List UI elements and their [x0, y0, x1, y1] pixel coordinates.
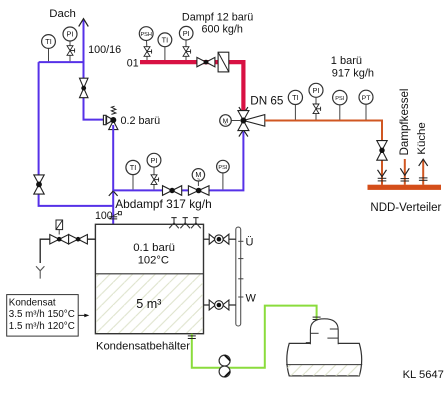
- flange ticks tank drain: [188, 336, 196, 339]
- flange ticks Kueche: [419, 178, 428, 180]
- svg-text:Kondensatbehälter: Kondensatbehälter: [96, 340, 190, 352]
- tank vents: [169, 218, 201, 229]
- svg-text:PSI: PSI: [218, 165, 227, 171]
- level gauge standpipe: [236, 227, 244, 326]
- svg-text:Dach: Dach: [49, 8, 76, 20]
- instrument TI roof: [42, 35, 56, 62]
- svg-text:PI: PI: [183, 29, 190, 38]
- flange ticks Dampfkessel: [401, 179, 410, 181]
- instrument PT NDD: [359, 90, 373, 119]
- svg-text:Küche: Küche: [416, 122, 428, 154]
- flange ticks NDD riser: [378, 178, 387, 181]
- wire: green condensate pump circuit: [192, 306, 317, 368]
- svg-text:TI: TI: [162, 35, 169, 44]
- wire: blue vent line to roof: [84, 20, 105, 120]
- drain valve W: [204, 300, 236, 310]
- instrument PI NDD with isolation valve: [309, 83, 323, 119]
- hand valve on Abdampf header: [163, 186, 182, 196]
- svg-text:DN 65: DN 65: [250, 95, 284, 108]
- wire: Dampfkessel feed: [404, 159, 406, 185]
- flow arrow up on Abdampf riser: [109, 191, 118, 196]
- condensate tank: [95, 224, 203, 333]
- svg-text:917 kg/h: 917 kg/h: [332, 67, 374, 79]
- instrument PI roof with isolation valve: [63, 27, 77, 61]
- svg-text:Abdampf 317 kg/h: Abdampf 317 kg/h: [115, 197, 212, 211]
- flow arrow down NDD riser: [378, 170, 387, 177]
- valve on left bypass: [34, 175, 44, 194]
- wire: Kueche line: [422, 159, 424, 185]
- svg-text:Dampfkessel: Dampfkessel: [398, 88, 411, 155]
- flow arrow down steam drop: [239, 107, 248, 114]
- flow arrow up into three-way valve: [239, 130, 248, 137]
- wire: Abdampf header: [113, 132, 243, 191]
- instrument PSI Abdampf: [217, 160, 230, 189]
- svg-text:TI: TI: [45, 37, 52, 46]
- svg-text:Dampf 12 barü: Dampf 12 barü: [182, 11, 253, 23]
- svg-text:KL 5647: KL 5647: [403, 369, 444, 381]
- wire: steam main 12 baru (red): [140, 62, 243, 111]
- svg-text:0.1 barü: 0.1 barü: [133, 242, 175, 254]
- svg-text:600 kg/h: 600 kg/h: [202, 23, 243, 35]
- svg-text:Ü: Ü: [246, 237, 254, 249]
- instrument PSH steam with isolation valve: [139, 27, 153, 60]
- condensate feed line with valves: [36, 220, 95, 279]
- valve on NDD riser: [377, 141, 387, 161]
- wire: NDD steam line (orange): [265, 121, 382, 185]
- svg-text:PI: PI: [67, 30, 74, 39]
- inlet tag: [113, 212, 121, 216]
- flange ticks tank inlet: [109, 217, 117, 219]
- svg-text:100: 100: [95, 210, 113, 222]
- svg-text:PSI: PSI: [335, 96, 344, 102]
- svg-text:1 barü: 1 barü: [331, 55, 362, 67]
- safety valve 0.2 baru: [103, 106, 118, 129]
- svg-text:PI: PI: [313, 86, 320, 95]
- svg-text:102°C: 102°C: [138, 254, 169, 266]
- svg-text:1.5 m³/h 120°C: 1.5 m³/h 120°C: [9, 321, 75, 332]
- three-way control valve with motor: [220, 111, 265, 131]
- overflow valve: [204, 234, 236, 244]
- flow arrow to Dach: [79, 19, 89, 27]
- instrument TI steam: [158, 33, 172, 60]
- condensate pump: [219, 355, 230, 377]
- flange ticks receiver inlet: [313, 317, 321, 319]
- wire: blue drop from safety valve to tank: [112, 125, 114, 224]
- instrument TI NDD: [288, 90, 302, 119]
- instrument PI steam with isolation valve: [179, 26, 193, 60]
- svg-text:PT: PT: [362, 95, 371, 102]
- valve on vent riser: [80, 78, 89, 98]
- svg-text:~: ~: [224, 122, 227, 128]
- instrument PI Abdampf with isolation valve: [147, 153, 161, 189]
- svg-text:01: 01: [127, 57, 139, 69]
- svg-text:NDD-Verteiler: NDD-Verteiler: [370, 202, 441, 214]
- svg-text:PSH: PSH: [140, 32, 152, 38]
- svg-text:W: W: [246, 293, 257, 305]
- valve on steam main: [197, 57, 215, 66]
- svg-text:5 m³: 5 m³: [136, 297, 161, 311]
- svg-text:~: ~: [197, 177, 201, 183]
- svg-text:0.2 barü: 0.2 barü: [121, 115, 161, 127]
- svg-text:100/16: 100/16: [88, 44, 121, 56]
- svg-text:Kondensat: Kondensat: [9, 297, 56, 308]
- flow arrow up Kueche: [419, 159, 428, 166]
- svg-text:TI: TI: [130, 163, 137, 172]
- NDD distribution header: [368, 185, 442, 190]
- svg-text:3.5 m³/h 150°C: 3.5 m³/h 150°C: [9, 309, 75, 320]
- instrument PSI NDD: [333, 90, 347, 119]
- instrument TI Abdampf: [126, 160, 140, 189]
- wire: blue roof header: [39, 61, 84, 63]
- svg-text:TI: TI: [292, 93, 299, 102]
- wire: left bypass line: [39, 62, 114, 206]
- flow arrow Kondensat supply: [78, 314, 89, 318]
- Kondensat supply box: [7, 295, 79, 337]
- strainer fitting on steam main: [218, 52, 229, 72]
- flow arrow down Dampfkessel: [400, 168, 409, 175]
- motor valve on Abdampf header: [188, 169, 209, 196]
- receiver tank: [284, 319, 364, 376]
- svg-text:PI: PI: [151, 156, 158, 165]
